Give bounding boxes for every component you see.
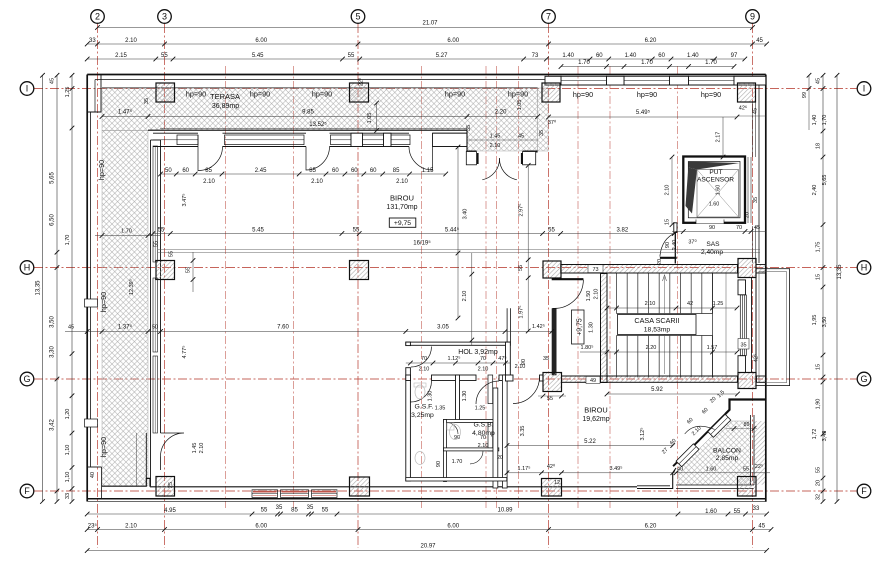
svg-text:2.10: 2.10 [199, 443, 205, 454]
svg-text:90: 90 [436, 461, 442, 467]
svg-text:1,25: 1,25 [65, 87, 71, 98]
stairs east 35 box [738, 339, 749, 350]
svg-text:BIROU: BIROU [390, 194, 414, 203]
birou19 south wall [637, 468, 676, 489]
bottom right dim chain [507, 472, 770, 474]
right outer wall [765, 75, 767, 502]
svg-text:H: H [24, 263, 31, 273]
svg-text:33: 33 [753, 506, 760, 512]
left band outer face [150, 140, 152, 486]
svg-text:G: G [23, 374, 30, 384]
svg-text:2,40: 2,40 [812, 185, 818, 196]
g wall west part b [540, 375, 544, 381]
svg-text:85: 85 [309, 168, 316, 174]
svg-text:60: 60 [596, 53, 603, 59]
terrace dim 13.52 [160, 128, 467, 130]
svg-text:6.00: 6.00 [447, 38, 459, 44]
svg-text:1.45: 1.45 [490, 134, 501, 140]
svg-text:20.97: 20.97 [420, 544, 436, 550]
svg-text:33: 33 [89, 38, 96, 44]
door bottom-left [161, 433, 185, 457]
svg-text:2.20: 2.20 [646, 345, 657, 351]
stairs west wall [601, 274, 608, 383]
stairs east wall stub bottom [738, 356, 746, 373]
svg-text:70: 70 [736, 225, 742, 231]
wall pier [607, 76, 625, 85]
svg-text:2.10: 2.10 [396, 179, 408, 185]
svg-text:90: 90 [665, 242, 671, 248]
top total dim 21.07 [98, 27, 753, 29]
column pad 4 [738, 83, 756, 102]
svg-text:1.70: 1.70 [578, 60, 590, 66]
left strip lower divider [136, 433, 138, 486]
vert dim line 472 [471, 253, 473, 345]
secondary grid line [293, 66, 295, 508]
svg-text:5.45: 5.45 [252, 227, 264, 233]
svg-text:1.35: 1.35 [435, 406, 446, 412]
wall pier [734, 76, 766, 85]
elevator east lines [747, 157, 749, 223]
svg-text:90: 90 [454, 435, 460, 441]
svg-text:3.35: 3.35 [520, 426, 526, 437]
column pad 6 [350, 261, 369, 280]
svg-text:1,70: 1,70 [822, 115, 828, 126]
svg-text:1.97⁵: 1.97⁵ [518, 306, 525, 319]
secondary grid line [609, 66, 611, 508]
svg-text:20: 20 [497, 455, 503, 461]
svg-text:16/19⁵: 16/19⁵ [413, 240, 431, 247]
svg-text:45: 45 [68, 325, 74, 331]
svg-text:1,10: 1,10 [65, 445, 71, 456]
left outer wall [86, 75, 88, 502]
svg-text:13,35: 13,35 [36, 280, 42, 296]
bottom dim row axes [87, 529, 771, 531]
hol south wall seg3 [499, 375, 506, 381]
svg-text:60: 60 [182, 168, 189, 174]
svg-text:3.05: 3.05 [437, 325, 449, 331]
right dim chain [822, 75, 824, 501]
balcony diag door 2 [708, 414, 731, 437]
svg-text:45: 45 [753, 108, 759, 114]
svg-text:HOL 3,92mp: HOL 3,92mp [458, 349, 498, 356]
left dim chain inner [71, 75, 73, 501]
left wall window 1 [85, 299, 98, 307]
svg-text:2.10: 2.10 [125, 523, 137, 529]
svg-text:1.25: 1.25 [475, 406, 486, 412]
axis grid line 2 [97, 24, 99, 548]
svg-text:hp=90: hp=90 [573, 90, 593, 99]
svg-text:20: 20 [657, 259, 663, 265]
svg-text:7.60: 7.60 [277, 325, 289, 331]
svg-text:1.42⁵: 1.42⁵ [532, 323, 545, 330]
svg-text:40: 40 [90, 472, 96, 478]
birou north sill segment [153, 139, 177, 141]
birou quota box [389, 218, 416, 227]
svg-text:TERASA: TERASA [210, 92, 240, 101]
column pad 11 [156, 477, 175, 497]
g wall west part a [506, 375, 514, 381]
axis circle F right [857, 484, 871, 498]
column pad 13 [542, 479, 562, 497]
svg-text:hp=90: hp=90 [99, 437, 108, 457]
terrace 1.05 dim [376, 103, 378, 131]
svg-text:2.40: 2.40 [672, 240, 678, 251]
plus975 stairs [572, 310, 585, 344]
wall pier [545, 76, 561, 85]
top-left corner pilaster [87, 75, 101, 112]
column pad 10 [738, 373, 756, 389]
svg-text:hp=90: hp=90 [637, 90, 657, 99]
svg-text:2.10: 2.10 [665, 185, 671, 196]
svg-text:55: 55 [348, 53, 355, 59]
gsb south wall [444, 448, 499, 451]
svg-text:97: 97 [731, 53, 738, 59]
svg-text:3: 3 [162, 12, 167, 22]
axis circle G left [20, 372, 34, 386]
axis grid line 3 [164, 24, 166, 548]
svg-text:131,70mp: 131,70mp [386, 204, 417, 211]
secondary grid line [496, 66, 498, 508]
left total dim 13.35 [42, 75, 44, 501]
svg-text:20: 20 [816, 480, 822, 486]
svg-text:50: 50 [152, 325, 158, 331]
window top wall [624, 76, 670, 85]
svg-text:6.00: 6.00 [255, 38, 267, 44]
svg-text:G.S.B.: G.S.B. [473, 422, 493, 429]
door birou19 to hol [513, 377, 540, 404]
svg-text:19,62mp: 19,62mp [582, 416, 609, 423]
right total dim 13.35 [836, 75, 838, 501]
svg-text:1.50: 1.50 [586, 291, 592, 302]
svg-text:60: 60 [370, 168, 377, 174]
svg-text:35: 35 [740, 343, 746, 349]
svg-text:35: 35 [753, 197, 759, 203]
svg-text:hp=90: hp=90 [250, 90, 270, 99]
svg-text:G.S.F.: G.S.F. [415, 404, 434, 411]
svg-text:+9,75: +9,75 [394, 220, 411, 227]
svg-text:hp=90: hp=90 [701, 90, 721, 99]
svg-text:2,40mp: 2,40mp [701, 249, 723, 256]
axis circle 2 top [91, 10, 105, 24]
axis circle F left [20, 484, 34, 498]
svg-text:35: 35 [543, 356, 549, 362]
sas south stub [660, 257, 677, 259]
svg-text:1,90: 1,90 [816, 399, 822, 410]
svg-text:40: 40 [677, 467, 683, 473]
axis circle H right [857, 261, 871, 275]
birou north wall inner face [153, 146, 198, 148]
axis circle I left [20, 82, 34, 96]
svg-text:BALCON: BALCON [713, 448, 741, 455]
svg-text:55: 55 [322, 508, 329, 514]
svg-text:1,95: 1,95 [812, 315, 818, 326]
axis grid line G [34, 378, 857, 380]
window bottom wall [281, 490, 309, 498]
svg-text:55: 55 [743, 467, 749, 473]
left band window 1 [153, 146, 158, 262]
double door arc left [482, 158, 499, 180]
svg-text:37⁰: 37⁰ [548, 119, 557, 126]
svg-text:2.10: 2.10 [311, 179, 323, 185]
svg-text:3.12⁵: 3.12⁵ [639, 428, 646, 441]
svg-text:1.80⁵: 1.80⁵ [581, 344, 594, 351]
elevator shaft inner wall [688, 162, 740, 218]
svg-text:35: 35 [539, 130, 545, 136]
terrace 1.45 dims [467, 139, 538, 141]
svg-text:hp=90: hp=90 [99, 292, 108, 312]
hol south wall seg2 [432, 375, 477, 381]
svg-text:13.52⁵: 13.52⁵ [309, 121, 327, 128]
svg-text:55: 55 [547, 396, 553, 402]
svg-text:45: 45 [754, 225, 760, 231]
svg-text:3,43: 3,43 [822, 431, 828, 442]
axis grid line 9 [752, 24, 754, 548]
svg-text:6.00: 6.00 [447, 523, 459, 529]
svg-text:20: 20 [745, 212, 751, 218]
svg-text:6.20: 6.20 [645, 38, 657, 44]
svg-text:60: 60 [351, 168, 358, 174]
bottom total dim 20.97 [87, 550, 766, 552]
svg-text:70: 70 [480, 356, 486, 362]
h wall label 73 [588, 265, 603, 273]
balcony hatch area [678, 421, 751, 485]
svg-text:H: H [861, 263, 868, 273]
balcony dim 89 [726, 428, 757, 430]
balcony ne wall [725, 400, 766, 415]
svg-text:2.10: 2.10 [203, 179, 215, 185]
svg-text:6.00: 6.00 [255, 523, 267, 529]
svg-text:2.15: 2.15 [115, 53, 127, 59]
hol west wall lower [406, 368, 411, 481]
birou dim 16/19 [158, 248, 760, 250]
substrip bottom wall right [523, 151, 538, 153]
svg-text:1,40: 1,40 [812, 115, 818, 126]
left wall lower inner line [101, 467, 103, 499]
svg-text:hp=90: hp=90 [312, 90, 332, 99]
door gsb [476, 381, 499, 404]
svg-text:1.70: 1.70 [705, 60, 717, 66]
bottom dim row detail [87, 513, 766, 515]
svg-text:1.40: 1.40 [562, 53, 574, 59]
left band top connect [151, 139, 161, 141]
svg-text:10.89: 10.89 [497, 508, 513, 514]
stairs flight bottom line [617, 313, 713, 315]
top outer wall [87, 74, 766, 76]
svg-text:I: I [863, 84, 866, 94]
axis grid line 5 [357, 24, 359, 548]
svg-text:2.97⁵: 2.97⁵ [518, 204, 525, 217]
stairs dim chain top [607, 307, 737, 309]
door gsb south [470, 451, 483, 464]
svg-text:2.10: 2.10 [594, 289, 600, 300]
svg-text:3.47⁵: 3.47⁵ [181, 194, 188, 207]
svg-text:1.12⁵: 1.12⁵ [448, 355, 461, 362]
wall pier birou north [351, 133, 363, 146]
svg-text:55: 55 [186, 267, 192, 273]
axis grid line I [34, 88, 857, 90]
svg-text:4.77⁵: 4.77⁵ [181, 346, 188, 359]
svg-text:SAS: SAS [706, 241, 720, 248]
svg-text:1,75: 1,75 [816, 242, 822, 253]
svg-text:85: 85 [393, 168, 400, 174]
terrace dim line [102, 116, 538, 118]
svg-text:35: 35 [466, 125, 472, 131]
top parapet inner line [95, 79, 545, 81]
svg-text:2.20: 2.20 [495, 110, 507, 116]
left wall inner line [90, 112, 92, 467]
svg-text:50: 50 [165, 168, 172, 174]
svg-text:1.15: 1.15 [422, 168, 434, 174]
stairs landing line [712, 274, 714, 378]
balcony south parapet [676, 484, 754, 486]
double door arc right [499, 158, 516, 180]
right bay outline [756, 269, 790, 386]
svg-text:1.45: 1.45 [192, 443, 198, 454]
svg-text:35: 35 [144, 98, 150, 104]
axis grid line H [34, 267, 857, 269]
svg-text:15: 15 [816, 274, 822, 280]
door gsf [411, 381, 432, 402]
svg-text:55: 55 [158, 227, 165, 233]
svg-text:35: 35 [307, 505, 314, 511]
svg-text:1.05: 1.05 [517, 100, 523, 111]
svg-text:4,80mp: 4,80mp [472, 430, 495, 437]
column pad 7 [543, 261, 561, 278]
svg-text:18: 18 [816, 143, 822, 149]
window bottom wall [252, 490, 278, 498]
top dim row axes [87, 43, 766, 45]
svg-text:3,30: 3,30 [50, 346, 56, 358]
window top wall [689, 76, 735, 85]
wall pier birou north [384, 133, 392, 146]
svg-text:42: 42 [687, 301, 693, 307]
elevator cab [697, 170, 739, 218]
axis circle G right [857, 372, 871, 386]
left strip hatch area [102, 131, 148, 487]
stairs center line up arrow [664, 277, 666, 374]
balcony diagonal wall [673, 414, 725, 466]
door arc birou north 1 [198, 147, 223, 171]
window birou north [363, 135, 384, 145]
right wall window lines [752, 102, 754, 157]
svg-text:5: 5 [355, 12, 360, 22]
gsb west stub V6 [488, 421, 493, 451]
svg-text:1.70: 1.70 [452, 459, 463, 465]
gsb fixture [450, 425, 461, 440]
birou mid dim chain [153, 233, 674, 235]
balcony east band hatch [754, 421, 766, 485]
substrip bottom wall left [466, 151, 476, 153]
vert dim line 528 [527, 165, 529, 331]
hol south wall seg1 [406, 375, 411, 381]
secondary grid line [485, 66, 487, 508]
door small v3 [447, 423, 459, 435]
hol dim chain [406, 362, 510, 364]
svg-text:2.10: 2.10 [645, 301, 656, 307]
axis grid line 7 [548, 24, 550, 548]
door hol west [411, 347, 432, 368]
svg-text:2.45: 2.45 [255, 168, 267, 174]
svg-text:4.95: 4.95 [164, 508, 176, 514]
left strip width dim [95, 235, 161, 237]
stairs lower flight treads [616, 336, 618, 378]
svg-text:6,50: 6,50 [50, 214, 56, 226]
stairs dim chain bottom [580, 351, 737, 353]
svg-text:42⁰: 42⁰ [547, 463, 556, 470]
svg-text:90: 90 [709, 225, 715, 231]
svg-text:55: 55 [734, 509, 741, 515]
left band window 2 [153, 278, 158, 352]
svg-text:1.60: 1.60 [716, 185, 722, 196]
axis circle I right [857, 82, 871, 96]
svg-text:55: 55 [816, 467, 822, 473]
svg-text:1.40: 1.40 [625, 53, 637, 59]
svg-text:25: 25 [168, 482, 174, 488]
svg-text:55: 55 [518, 265, 524, 271]
svg-text:1.25: 1.25 [713, 301, 724, 307]
svg-text:7: 7 [546, 12, 551, 22]
svg-text:1,10: 1,10 [65, 472, 71, 483]
lobby west wall [552, 308, 557, 375]
gsf fixture [415, 385, 425, 399]
svg-text:1.17⁵: 1.17⁵ [518, 465, 531, 472]
svg-text:9: 9 [750, 12, 755, 22]
svg-text:1,70: 1,70 [65, 235, 71, 246]
svg-text:6.20: 6.20 [645, 523, 657, 529]
birou19 dims [507, 445, 673, 447]
svg-text:I: I [26, 84, 29, 94]
top dim row detail [87, 58, 745, 60]
svg-text:2,85mp: 2,85mp [716, 455, 739, 462]
elevator door gap [696, 220, 724, 224]
elevator dims bottom [672, 231, 766, 233]
svg-text:3,50: 3,50 [822, 317, 828, 328]
secondary grid line [518, 66, 520, 508]
elevator dark wedge left [686, 168, 698, 214]
window birou north [391, 135, 410, 145]
svg-text:hp=90: hp=90 [445, 90, 465, 99]
svg-text:3.49⁵: 3.49⁵ [610, 465, 623, 472]
terrace hatch area [102, 88, 538, 151]
secondary grid line [677, 66, 679, 508]
gsb west wall [444, 420, 447, 482]
top dim row 1.70s [561, 66, 734, 68]
svg-text:42⁶: 42⁶ [739, 105, 747, 112]
column pad 14 [738, 477, 757, 497]
svg-text:2.10: 2.10 [125, 38, 137, 44]
svg-text:22⁰: 22⁰ [358, 77, 365, 86]
stairs east window band [739, 295, 741, 356]
double door leaf right [521, 153, 523, 164]
right wall inner line [758, 85, 760, 263]
svg-text:37⁰: 37⁰ [688, 239, 697, 246]
bottom rooms closing wall [406, 478, 507, 482]
svg-text:21.07: 21.07 [422, 21, 438, 27]
svg-text:BIROU: BIROU [584, 406, 607, 415]
svg-text:55: 55 [161, 53, 168, 59]
svg-text:47⁵: 47⁵ [498, 355, 506, 362]
axis circle H left [20, 261, 34, 275]
sas door arc [660, 233, 675, 257]
svg-text:ASCENSOR: ASCENSOR [697, 177, 734, 184]
svg-text:1.60: 1.60 [709, 202, 720, 208]
g wall label 49 [586, 376, 600, 383]
pad height dim h3 [192, 252, 194, 292]
svg-text:1.57: 1.57 [707, 345, 718, 351]
left wall step line [88, 466, 102, 468]
wall pier [670, 76, 689, 85]
g wall west of stairs [562, 376, 601, 382]
